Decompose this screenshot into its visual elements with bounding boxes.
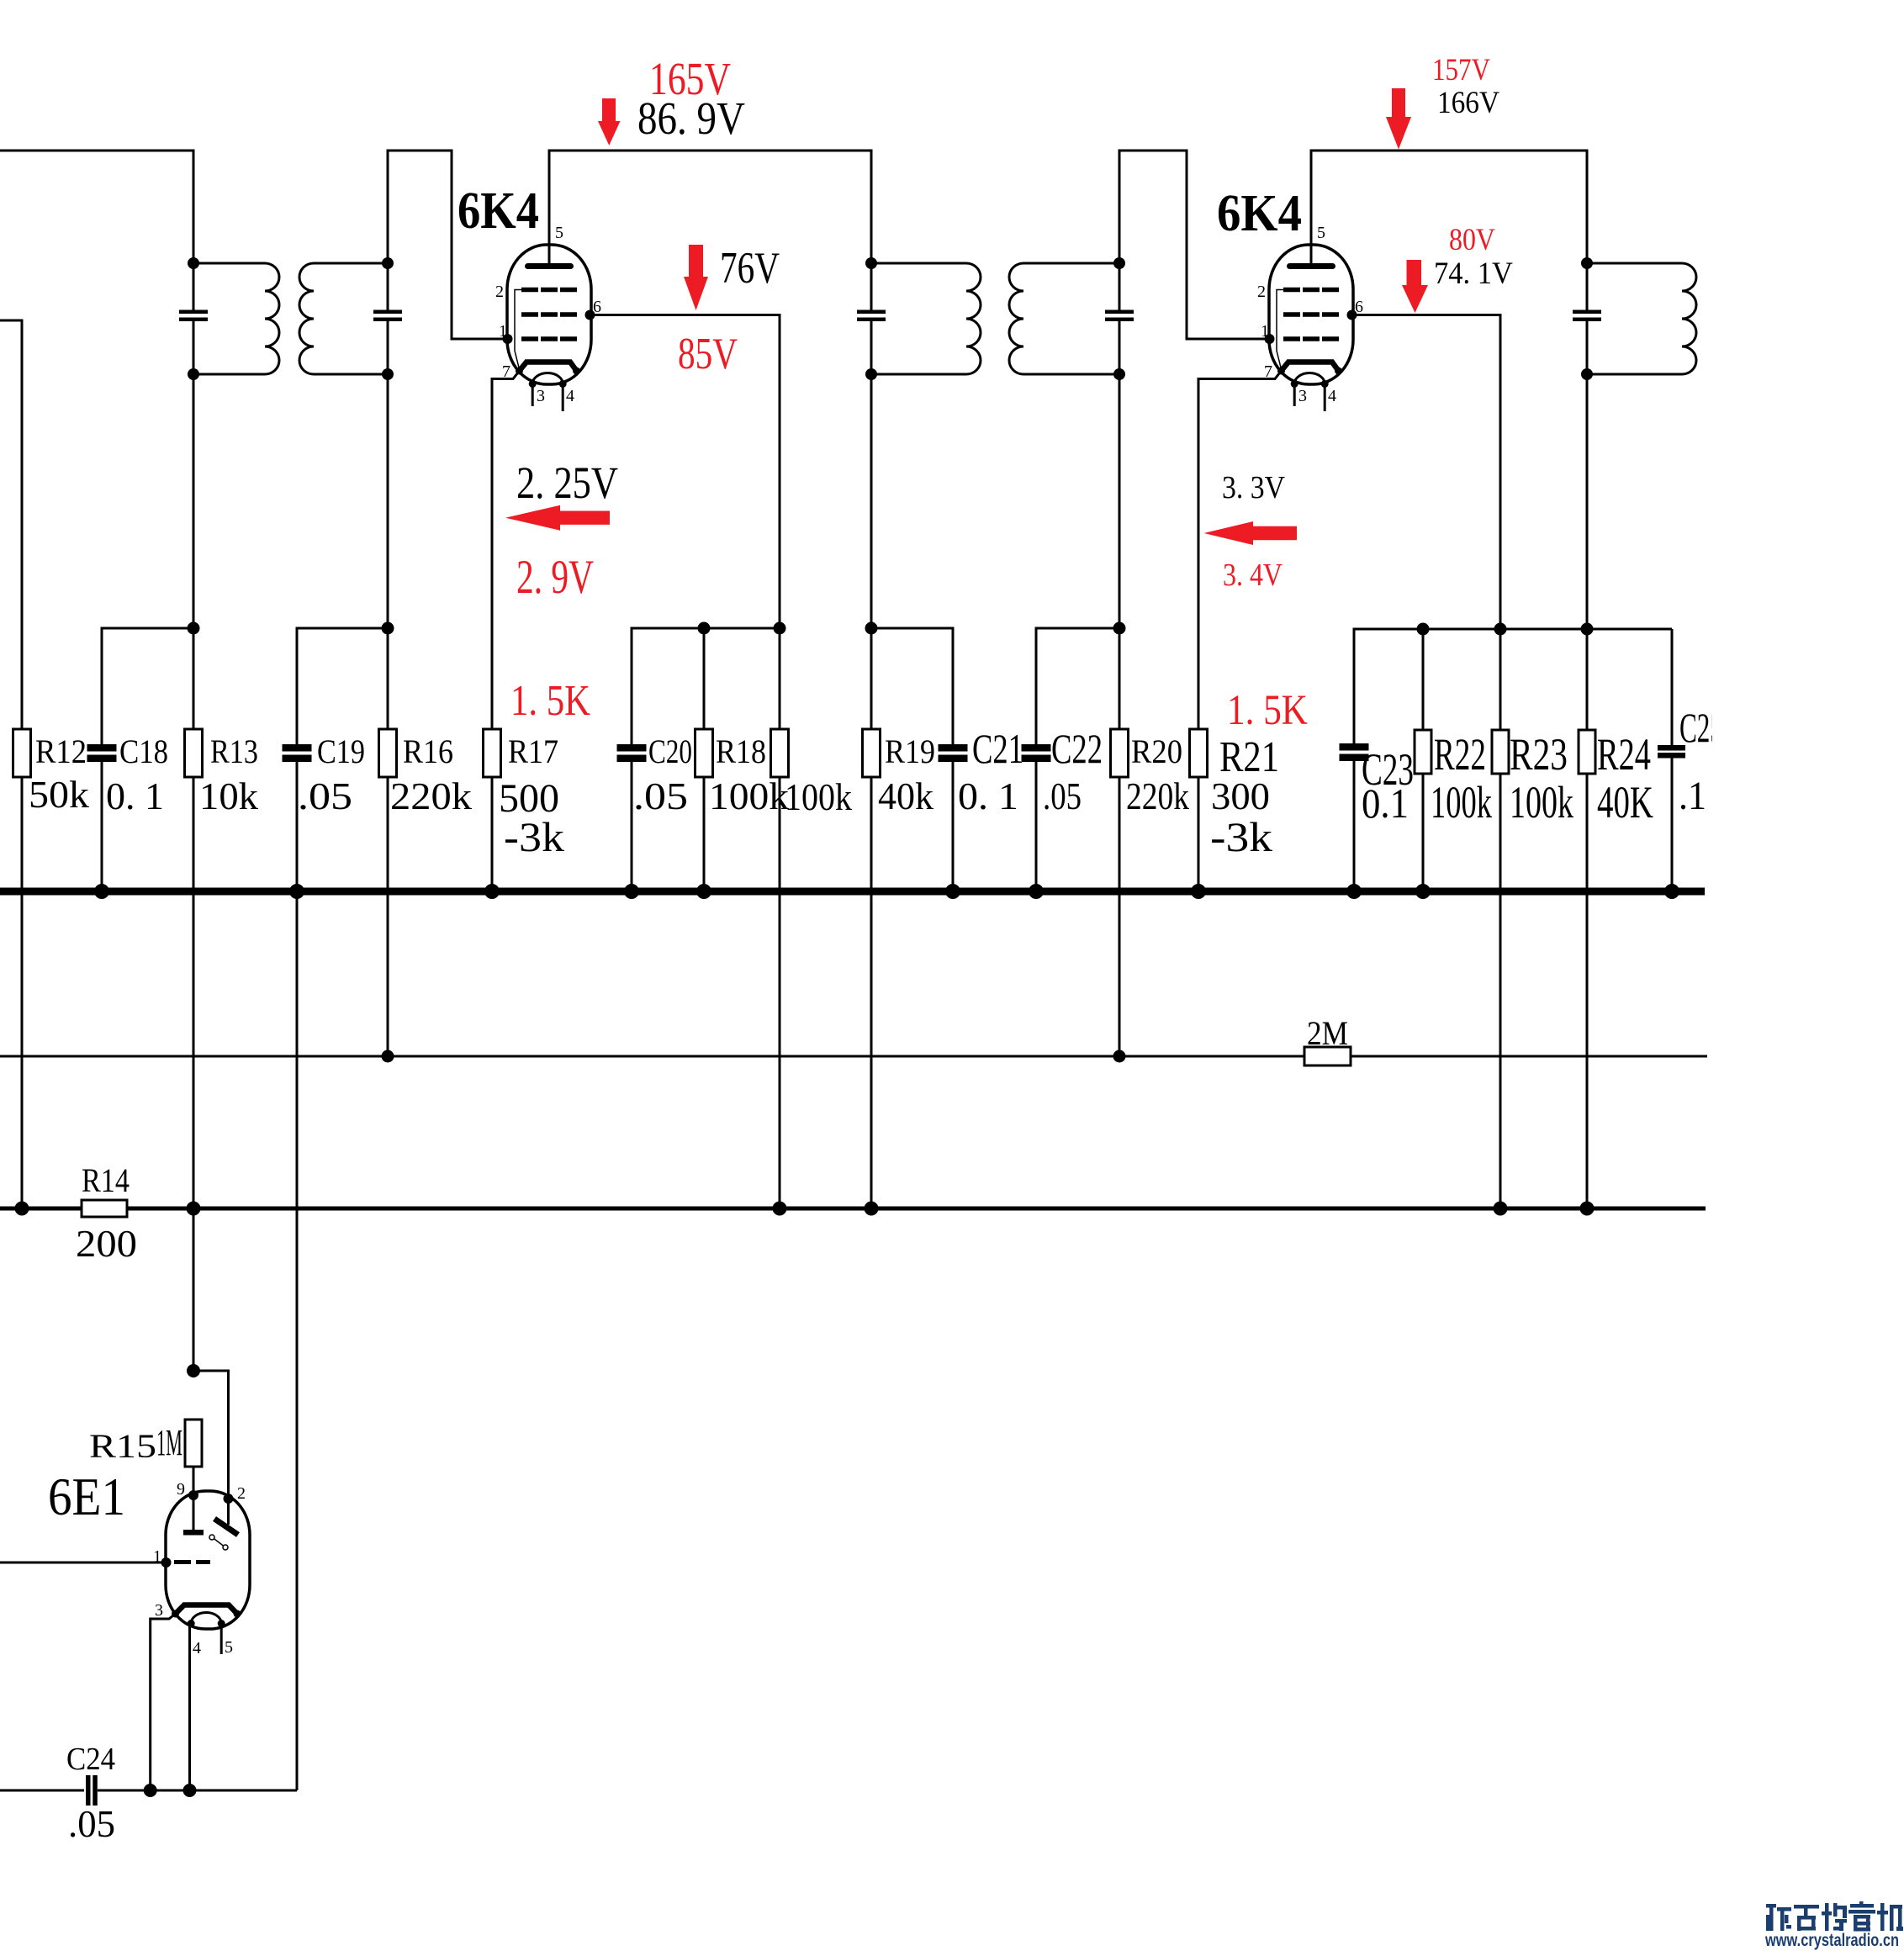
wire U1 pin7 cathode lead to R17: [492, 371, 520, 729]
resistor R20: [1111, 729, 1129, 777]
svg-text:86. 9V: 86. 9V: [637, 93, 745, 144]
capacitor IFT1 primary tuning: [179, 310, 208, 315]
node C18-R13 junction: [188, 622, 200, 635]
svg-text:1M: 1M: [156, 1422, 182, 1463]
svg-text:.05: .05: [1043, 775, 1082, 817]
svg-text:1. 5K: 1. 5K: [1227, 687, 1308, 734]
svg-text:4: 4: [566, 387, 574, 405]
svg-text:6: 6: [1355, 298, 1363, 316]
wire R24 top: [1586, 374, 1589, 629]
wire R20 down to AVC line: [1119, 777, 1121, 1056]
IFT1 primary coil L1: [193, 263, 279, 374]
wire R22 to ground bus: [1422, 774, 1425, 891]
wire R18 top: [703, 628, 706, 729]
wire IFT2 left to R19: [870, 374, 873, 628]
resistor R12: [13, 729, 31, 777]
svg-text:C21: C21: [972, 725, 1023, 772]
svg-text:R23: R23: [1510, 729, 1568, 780]
IFT3 vertical wire: [1586, 263, 1589, 310]
svg-text:C18: C18: [119, 732, 168, 770]
svg-text:2: 2: [237, 1484, 246, 1503]
wire R15 bottom to pin 9: [193, 1467, 195, 1495]
node R16-AVC junction: [382, 1050, 394, 1063]
svg-text:300: 300: [1211, 775, 1270, 817]
U1 6K4 plate (pin 5 anode bar): [525, 263, 574, 269]
wire R21 to ground bus: [1198, 777, 1200, 891]
capacitor C24: [86, 1775, 91, 1806]
svg-text:0. 1: 0. 1: [958, 775, 1018, 817]
wire U1 pin6 to grid-return loop: [590, 315, 780, 629]
svg-text:-3k: -3k: [504, 813, 564, 860]
U2 6K4 cathode end dots: [1277, 367, 1285, 375]
svg-text:166V: 166V: [1437, 86, 1499, 120]
svg-text:3. 3V: 3. 3V: [1222, 470, 1285, 505]
wire 6E1 pin 1 feed from left edge: [0, 1562, 167, 1564]
svg-text:5: 5: [1317, 224, 1325, 242]
wire R23 mid: [1499, 629, 1502, 730]
svg-text:R16: R16: [403, 732, 453, 770]
svg-text:R24: R24: [1597, 729, 1651, 780]
wire C22 top link: [1036, 628, 1119, 744]
svg-text:www.crystalradio.cn: www.crystalradio.cn: [1764, 1931, 1899, 1950]
U1 6K4 heater dots: [529, 380, 537, 388]
wire R19 down to R14 line: [870, 777, 873, 1208]
U1 6K4 pin 6 dot: [585, 310, 595, 320]
svg-text:1: 1: [153, 1547, 161, 1566]
wire C18 to ground bus: [101, 762, 103, 891]
node R19-C21 junction: [865, 622, 878, 635]
svg-text:2. 25V: 2. 25V: [516, 457, 618, 508]
capacitor C22: [1022, 744, 1051, 752]
wire R13 down to R14 line: [193, 777, 195, 1208]
C24 line left segment: [0, 1790, 84, 1792]
U2 6K4 heater arc: [1294, 373, 1325, 384]
wire C19 top link: [297, 628, 388, 744]
ground bus junction dots: [94, 884, 109, 899]
C24 line right segment: [98, 1790, 297, 1792]
svg-text:3: 3: [155, 1601, 163, 1620]
svg-text:.05: .05: [68, 1803, 115, 1845]
svg-text:R17: R17: [508, 732, 558, 770]
svg-text:50k: 50k: [29, 773, 89, 816]
svg-text:R19: R19: [885, 732, 935, 770]
U1 6K4 pin 4 lead: [562, 384, 564, 412]
wire junction to 6E1 pin 2: [193, 1371, 229, 1525]
wire C19 to ground bus: [296, 762, 299, 891]
wire IFT1 right to R16: [387, 374, 389, 729]
U2 6K4 pin 1 dot: [1265, 334, 1275, 344]
svg-text:76V: 76V: [720, 244, 780, 293]
svg-text:100k: 100k: [1510, 777, 1573, 827]
svg-text:R22: R22: [1434, 729, 1486, 780]
U2 6K4 pin 4 lead: [1324, 384, 1326, 412]
svg-text:2M: 2M: [1307, 1014, 1348, 1052]
U1 6K4 internal grid lead: [515, 290, 521, 372]
svg-text:C20: C20: [648, 732, 692, 770]
wire IFT2 secondary to grid loop: [1119, 151, 1270, 339]
wire 6E1 pin 4 to C24 line: [188, 1624, 191, 1791]
IFT1 right vertical wire: [387, 263, 389, 310]
wire R23 down to R14 line: [1499, 774, 1502, 1208]
svg-text:R13: R13: [210, 732, 258, 770]
svg-text:1. 5K: 1. 5K: [510, 677, 590, 725]
capacitor C18: [87, 744, 117, 752]
svg-text:3: 3: [1298, 387, 1307, 405]
wire R17 to ground bus: [491, 777, 494, 891]
svg-text:74. 1V: 74. 1V: [1434, 256, 1513, 291]
R14 bus line: [0, 1207, 1706, 1211]
svg-text:40K: 40K: [1597, 777, 1653, 827]
wire C22 to ground bus: [1035, 762, 1038, 891]
wire R19 mid: [870, 628, 873, 729]
svg-text:5: 5: [225, 1638, 233, 1657]
resistor R13: [185, 729, 203, 777]
6E1 pin 2 dot: [224, 1494, 234, 1504]
U2 6K4 pin 3 lead: [1293, 384, 1296, 407]
svg-text:6K4: 6K4: [1217, 185, 1302, 242]
wire C23 top link: [1354, 629, 1672, 744]
6E1 deflection electrode: [214, 1519, 238, 1535]
U2 6K4 pin 6 dot: [1347, 310, 1357, 320]
U2 6K4 heater dots: [1291, 380, 1298, 388]
6E1 pin 9 dot: [188, 1490, 198, 1500]
resistor R22: [1415, 730, 1431, 774]
svg-text:6K4: 6K4: [457, 182, 539, 240]
svg-text:0.1: 0.1: [1362, 780, 1409, 827]
wire 6E1 pin 3 to C24 line: [151, 1614, 176, 1790]
tube 6E1 envelope: [166, 1491, 250, 1629]
tube U1 6K4 envelope: [507, 245, 591, 384]
node C22-R20 junction: [1113, 622, 1126, 635]
wire R22 top: [1422, 629, 1425, 730]
node C19-R16 junction: [382, 622, 394, 635]
capacitor C21: [939, 744, 968, 752]
wire R12 to R14 line: [21, 777, 24, 1208]
svg-text:100k: 100k: [709, 775, 789, 817]
resistor R18: [695, 729, 713, 777]
svg-text:2: 2: [1257, 283, 1266, 301]
wire R13 line to R15/pin2 junction: [193, 1208, 195, 1371]
wire C19/C24 long link down: [296, 891, 299, 1790]
resistor R19: [863, 729, 881, 777]
svg-text:R12: R12: [35, 732, 87, 770]
wire IFT1 secondary to grid loop: [388, 151, 508, 339]
svg-text:R18: R18: [716, 732, 766, 770]
node R18 top junction: [698, 622, 711, 635]
red left arrow stage1: [505, 505, 610, 531]
svg-text:4: 4: [193, 1639, 201, 1658]
red arrow at 165V: [598, 98, 621, 145]
node R22 top junction: [1417, 623, 1430, 636]
wire IFT1 left to R13: [193, 374, 195, 729]
svg-text:1: 1: [499, 322, 507, 341]
capacitor C19: [283, 744, 312, 752]
svg-text:100k: 100k: [1431, 777, 1492, 827]
wire IFT2 right to R20: [1119, 374, 1121, 729]
U2 6K4 cathode: [1282, 362, 1339, 372]
C24 line junction dots: [144, 1784, 157, 1797]
svg-text:6: 6: [593, 298, 601, 316]
resistor 2M inline: [1304, 1047, 1351, 1065]
node R20-AVC junction: [1113, 1050, 1126, 1063]
wire R16 down to AVC line: [387, 777, 389, 1056]
svg-text:157V: 157V: [1432, 53, 1490, 87]
node R24 top junction: [1581, 623, 1594, 636]
red arrow at 157V: [1386, 88, 1411, 150]
wire C20 top link: [632, 628, 780, 744]
resistor R16: [379, 729, 397, 777]
U1 6K4 heater arc: [532, 373, 563, 384]
svg-text:2: 2: [495, 283, 504, 301]
tube U2 6K4 envelope: [1269, 245, 1353, 384]
6E1 pin 1 dot: [161, 1557, 172, 1568]
svg-text:.1: .1: [1679, 774, 1706, 818]
resistor R21: [1190, 729, 1208, 777]
U2 6K4 internal grid lead: [1277, 290, 1283, 372]
wire R18 to ground bus: [703, 777, 706, 891]
wire 6E1 pin 5 stub: [220, 1624, 223, 1655]
svg-text:C24: C24: [66, 1742, 115, 1777]
wire C18 top link: [102, 628, 193, 744]
watermark logo 矿石收音机: [1766, 1901, 1903, 1932]
capacitor C23: [1340, 743, 1369, 751]
svg-text:220k: 220k: [1126, 775, 1189, 817]
svg-text:4: 4: [1328, 387, 1336, 405]
svg-text:1: 1: [1261, 322, 1269, 341]
svg-text:200: 200: [76, 1222, 137, 1265]
red arrow at 76V: [684, 245, 708, 310]
capacitor IFT2 primary tuning: [857, 310, 886, 315]
capacitor C20: [617, 744, 647, 752]
svg-text:R15: R15: [89, 1427, 156, 1465]
U1 6K4 cathode: [520, 362, 577, 372]
wire grid-return resistor to R14 line: [779, 777, 781, 1208]
red arrow at 80V: [1402, 260, 1428, 313]
svg-text:.05: .05: [633, 775, 688, 817]
svg-text:3: 3: [537, 387, 545, 405]
AVC line: [0, 1055, 1707, 1058]
svg-text:220k: 220k: [390, 775, 472, 817]
6E1 cathode end dots: [172, 1610, 179, 1618]
6E1 grid dashes: [174, 1560, 191, 1564]
resistor R14 inline: [82, 1200, 127, 1217]
wire C25 to ground bus: [1671, 758, 1674, 891]
wire 165V B+ line: [549, 151, 871, 264]
U1 6K4 cathode end dots: [516, 367, 523, 375]
wire U2 pin7 cathode lead to R21: [1198, 371, 1282, 729]
wire C23 to ground bus: [1353, 761, 1356, 891]
wire C21 to ground bus: [952, 762, 955, 891]
node R15 top junction: [187, 1364, 200, 1377]
IFT2 right vertical wire: [1119, 263, 1121, 310]
wire C21 top link: [871, 628, 953, 744]
svg-text:-3k: -3k: [1210, 813, 1272, 860]
node grid-return top junction: [774, 622, 786, 635]
svg-text:R20: R20: [1131, 732, 1182, 770]
U2 6K4 plate (pin 5 anode bar): [1287, 263, 1335, 269]
U1 6K4 pin 3 lead: [532, 384, 534, 407]
node IFT2 junctions: [865, 257, 877, 269]
wire C20 to ground bus: [631, 762, 633, 891]
svg-text:80V: 80V: [1449, 223, 1495, 257]
svg-text:2. 9V: 2. 9V: [516, 551, 594, 604]
wire U2 pin6 to grid-return loop: [1352, 315, 1501, 630]
IFT3 primary coil L5: [1587, 263, 1696, 374]
ground bus line: [0, 888, 1705, 896]
IFT1 left vertical wire: [193, 263, 195, 310]
svg-text:0. 1: 0. 1: [106, 775, 164, 817]
node IFT3 junctions: [1581, 257, 1593, 269]
6E1 heater dots: [188, 1620, 195, 1627]
label C25 (cut off): [1679, 704, 1723, 751]
capacitor IFT2 secondary tuning: [1105, 310, 1134, 315]
U2 6K4 grid dash rows: [1283, 288, 1339, 341]
svg-text:5: 5: [555, 224, 563, 242]
svg-text:9: 9: [177, 1480, 185, 1499]
node IFT1 junctions: [188, 257, 199, 269]
svg-text:C19: C19: [317, 732, 365, 770]
svg-text:85V: 85V: [678, 330, 738, 378]
wire 157V B+ line: [1311, 151, 1587, 264]
resistor R24: [1579, 730, 1595, 774]
svg-text:40k: 40k: [878, 775, 933, 817]
wire R24 down to R14 line: [1586, 774, 1589, 1208]
6E1 heater arc: [191, 1613, 221, 1624]
IFT2 primary coil L3: [871, 263, 981, 374]
capacitor IFT1 secondary tuning: [373, 310, 402, 315]
U1 6K4 grid dash rows: [521, 288, 577, 341]
wire C25 link: [1671, 629, 1674, 745]
wire top-left feed: [0, 151, 193, 263]
resistor R23: [1492, 730, 1509, 774]
U1 6K4 pin 1 dot: [503, 334, 513, 344]
resistor R15: [185, 1420, 202, 1467]
svg-text:100k: 100k: [785, 775, 852, 818]
resistor R17: [484, 729, 501, 777]
R14 line junction dots: [15, 1202, 29, 1216]
IFT1 secondary coil L2: [299, 263, 388, 374]
resistor R-grid 100k: [771, 729, 789, 777]
wire AVC feed from left edge: [0, 320, 22, 729]
svg-text:6E1: 6E1: [48, 1467, 125, 1526]
svg-text:R14: R14: [82, 1161, 130, 1199]
capacitor C25: [1658, 745, 1685, 751]
svg-text:10k: 10k: [199, 775, 258, 817]
wire grid-return resistor top: [779, 628, 781, 729]
6E1 eye switch contact: [211, 1536, 225, 1547]
svg-text:3. 4V: 3. 4V: [1223, 558, 1283, 593]
svg-text:.05: .05: [298, 775, 352, 817]
node R23 top junction: [1494, 623, 1507, 636]
6E1 cathode: [176, 1605, 238, 1615]
IFT2 secondary coil L4: [1009, 263, 1119, 374]
6E1 target electrode: [193, 1495, 195, 1530]
svg-text:C22: C22: [1051, 725, 1103, 772]
red left arrow stage2: [1204, 521, 1298, 545]
capacitor IFT3 tuning: [1573, 310, 1601, 315]
IFT2 left vertical wire: [870, 263, 873, 310]
